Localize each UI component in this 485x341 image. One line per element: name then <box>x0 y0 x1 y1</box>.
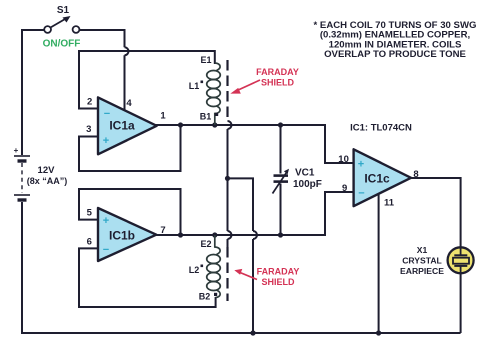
faraday shield 2 dashed line <box>226 247 228 301</box>
svg-text:+: + <box>358 159 364 171</box>
note: coil specification text <box>314 20 477 60</box>
svg-text:IC1: TL074CN: IC1: TL074CN <box>350 123 412 134</box>
svg-text:IC1a: IC1a <box>109 119 135 133</box>
op-amp IC1b <box>87 208 166 262</box>
wire: IC1a output rail (pin 1) to pin 10 of IC1c <box>155 125 354 163</box>
svg-text:L1: L1 <box>189 81 200 91</box>
svg-text:−: − <box>358 188 364 200</box>
svg-text:SHIELD: SHIELD <box>261 277 295 287</box>
coil L2 <box>207 235 221 298</box>
node: shield ground junction on bottom rail <box>250 330 255 335</box>
node: junction pin3/pin5 riser on output rail <box>178 122 183 127</box>
svg-text:1: 1 <box>160 111 166 122</box>
svg-text:E2: E2 <box>200 239 211 249</box>
svg-text:L2: L2 <box>189 265 200 275</box>
faraday shield 1 dashed line <box>226 60 228 120</box>
svg-text:6: 6 <box>87 236 92 247</box>
svg-text:B2: B2 <box>199 292 211 302</box>
svg-text:SHIELD: SHIELD <box>261 78 295 88</box>
svg-text:7: 7 <box>160 225 165 236</box>
svg-text:3: 3 <box>86 124 91 135</box>
wire: left rail from S1 left terminal down to battery + <box>22 30 45 155</box>
svg-text:5: 5 <box>87 208 93 219</box>
svg-text:−: − <box>103 244 109 256</box>
switch S1 <box>44 5 79 33</box>
wire: IC1c output pin 8 to earpiece <box>410 178 461 247</box>
wire: earpiece to bottom rail <box>460 274 462 333</box>
svg-text:FARADAY: FARADAY <box>257 267 300 277</box>
node: junction pin5 riser on output rail <box>178 232 183 237</box>
svg-text:10: 10 <box>338 154 349 165</box>
label X1 CRYSTAL EARPIECE <box>400 245 444 276</box>
svg-text:X1: X1 <box>417 245 428 255</box>
node: junction E2 on output rail <box>212 232 217 237</box>
node: shield tap junction <box>225 176 230 181</box>
svg-text:+: + <box>103 215 109 227</box>
wire: S1 right terminal to IC1a pin 4 <box>79 30 124 112</box>
svg-text:9: 9 <box>342 183 347 194</box>
svg-text:IC1c: IC1c <box>364 172 390 186</box>
node: junction VC1 bottom on output rail <box>278 232 283 237</box>
svg-text:2: 2 <box>87 97 92 108</box>
wire: shield bus with hops and ground tap <box>228 121 258 333</box>
svg-text:VC1: VC1 <box>295 168 315 179</box>
svg-text:+: + <box>14 146 19 155</box>
label FARADAY SHIELD (bottom) with arrow <box>234 267 299 288</box>
svg-text:+: + <box>103 135 109 147</box>
svg-text:S1: S1 <box>57 5 70 16</box>
svg-text:EARPIECE: EARPIECE <box>400 266 444 276</box>
svg-text:12V: 12V <box>38 165 56 176</box>
svg-text:OVERLAP TO PRODUCE TONE: OVERLAP TO PRODUCE TONE <box>324 49 466 60</box>
wire: IC1c pin 11 to bottom rail <box>378 195 380 334</box>
svg-text:ON/OFF: ON/OFF <box>43 39 81 50</box>
node: junction VC1 top on output rail <box>278 122 283 127</box>
svg-text:E1: E1 <box>200 55 211 65</box>
label FARADAY SHIELD (top) with arrow <box>230 67 299 94</box>
svg-text:−: − <box>104 108 110 120</box>
svg-text:100pF: 100pF <box>293 179 322 190</box>
wire: IC1b output rail (pin 7) to pin 9 of IC1c <box>155 192 354 235</box>
wire: IC1b pin 6 feedback down to B2 <box>79 248 216 307</box>
wire: IC1a pin 3 to output node <box>79 125 181 171</box>
svg-text:CRYSTAL: CRYSTAL <box>402 256 442 266</box>
svg-text:4: 4 <box>126 98 132 109</box>
op-amp IC1a <box>86 97 166 155</box>
wire: battery - down to bottom rail, rail across to earpiece <box>22 202 461 333</box>
node: pin 11 junction on bottom rail <box>376 330 381 335</box>
wire: IC1a pin 2 feedback up to E1 <box>79 51 215 109</box>
wire: IC1b pin 5 to output node <box>79 189 181 235</box>
coil L1 <box>207 63 221 125</box>
battery 12V <box>14 146 68 200</box>
svg-text:B1: B1 <box>200 112 212 122</box>
earpiece X1 <box>448 247 474 273</box>
svg-text:(8x “AA”): (8x “AA”) <box>27 176 68 186</box>
svg-text:11: 11 <box>384 198 395 209</box>
svg-text:IC1b: IC1b <box>109 229 135 243</box>
op-amp IC1c <box>338 149 418 208</box>
variable capacitor VC1 <box>273 125 322 235</box>
svg-text:FARADAY: FARADAY <box>256 67 299 77</box>
node: junction B1 on output rail <box>212 122 217 127</box>
